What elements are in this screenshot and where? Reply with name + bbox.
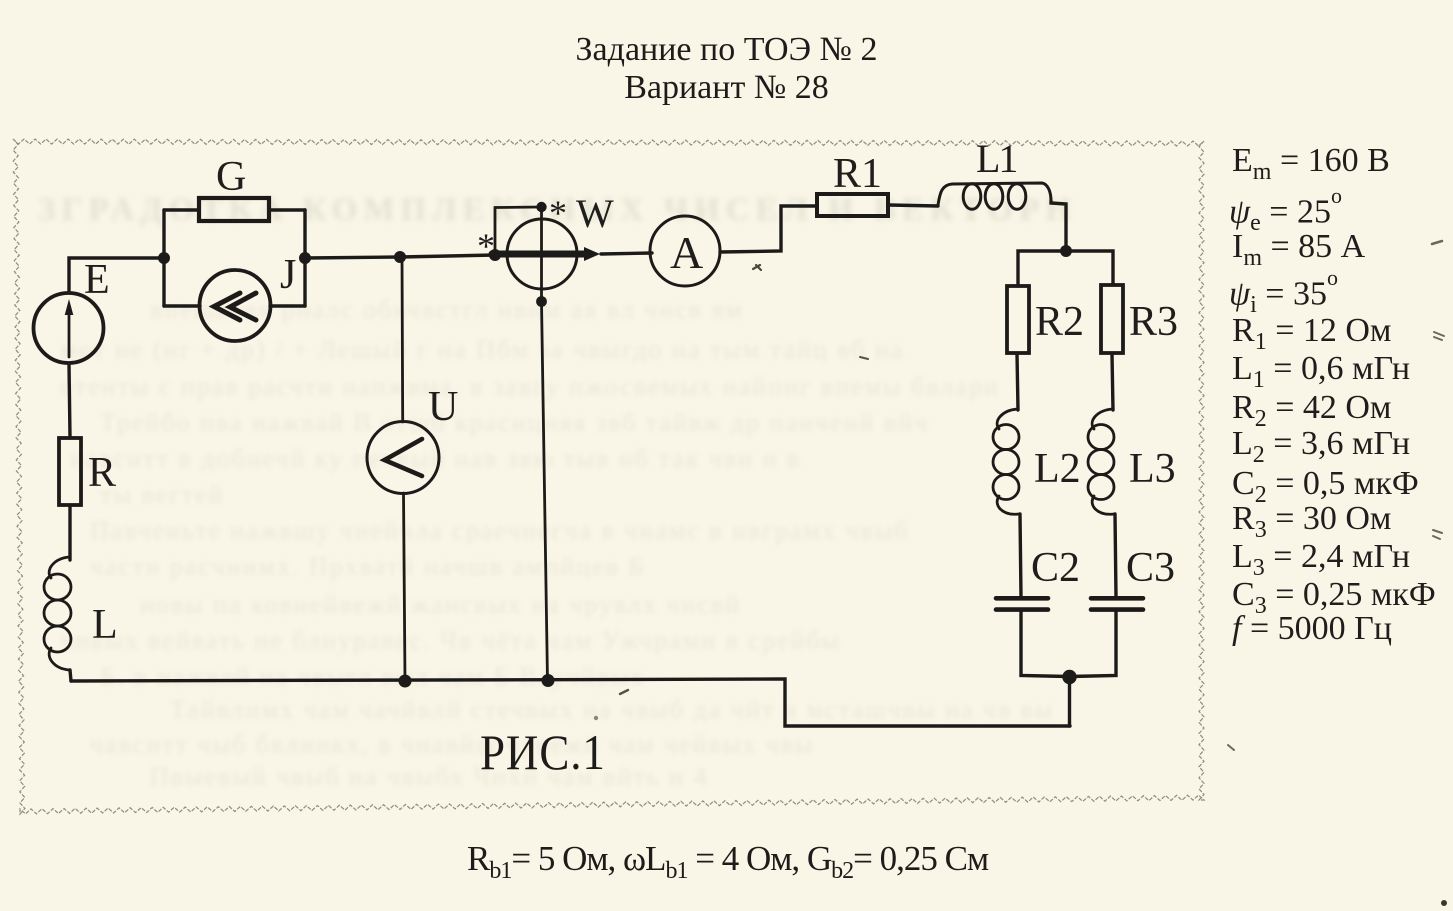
- W bar arrowhead: [584, 247, 600, 261]
- value label R3 = 30 Ом: [1232, 500, 1391, 544]
- inductor L3: [1088, 409, 1114, 514]
- svg-text:G: G: [216, 154, 246, 200]
- svg-text:L3: L3: [1129, 446, 1176, 492]
- wire G left lead: [164, 208, 198, 211]
- value label C3 = 0,25 мкФ: [1232, 576, 1436, 620]
- svg-text:R2: R2: [1035, 299, 1084, 345]
- resistor R3: [1101, 285, 1123, 353]
- wire L1 down to node: [1051, 201, 1066, 251]
- value label L3 = 2,4 мГн: [1232, 538, 1410, 582]
- voltage source E: [34, 293, 104, 363]
- ammeter A: [650, 216, 720, 286]
- wire C3 to junction: [1070, 610, 1116, 677]
- wattmeter W: [507, 219, 577, 289]
- J arrows: [214, 293, 256, 320]
- value label C2 = 0,5 мкФ: [1232, 465, 1419, 509]
- scan speckle 7: [1228, 745, 1234, 750]
- node dot bottom W: [542, 674, 555, 687]
- W current coil bar: [492, 251, 586, 258]
- node dot left of G-J: [158, 252, 170, 264]
- wire C2 to junction: [1021, 610, 1068, 677]
- svg-text:L1: L1: [976, 136, 1016, 181]
- document title line 2: [0, 69, 1453, 107]
- wire R1 to L1: [889, 205, 938, 206]
- svg-text:W: W: [576, 191, 614, 236]
- value label psi-e = 25 deg: [1229, 190, 1342, 237]
- wire J right lead: [270, 304, 305, 307]
- wire R2 to L2: [1017, 354, 1018, 410]
- svg-text:R3: R3: [1129, 299, 1178, 345]
- scan speckle 8: [620, 690, 628, 694]
- inductor L2: [993, 409, 1019, 514]
- scan speckle 2: [1432, 241, 1442, 244]
- bleed-through rows (scan artifacts): [38, 192, 1077, 229]
- W voltage-coil bracket: [495, 207, 541, 255]
- wire W to A: [601, 253, 652, 254]
- capacitor C3: [1091, 598, 1143, 609]
- node dot U branch: [394, 251, 406, 263]
- scan speckle 9: [594, 716, 598, 720]
- resistor R2: [1007, 286, 1029, 353]
- document title line 1: [0, 31, 1453, 69]
- inductor L: [44, 557, 71, 670]
- wire node to R2: [1018, 251, 1066, 285]
- wire L3 to C3: [1115, 514, 1116, 597]
- capacitor C2: [996, 598, 1048, 609]
- value label L2 = 3,6 мГн: [1232, 425, 1410, 469]
- scan speckle 6: [860, 357, 868, 359]
- wire A to step: [720, 206, 816, 252]
- svg-text:C3: C3: [1126, 545, 1175, 591]
- wire G-J right vertical: [303, 210, 306, 306]
- junction dot C2-C3: [1062, 670, 1076, 684]
- wire U branch upper: [401, 257, 405, 422]
- value label psi-i = 35 deg: [1229, 272, 1338, 319]
- wire junction down: [1068, 677, 1071, 726]
- value label Em = 160 В: [1232, 142, 1390, 186]
- resistor G: [199, 198, 269, 221]
- svg-text:J: J: [280, 252, 296, 298]
- resistor R1: [817, 194, 888, 216]
- U chevron: [385, 439, 423, 476]
- figure caption РИС.1: [480, 723, 606, 781]
- W voltage coil down wire: [542, 302, 548, 682]
- inductor L1: [938, 183, 1051, 209]
- wire main node to U node: [305, 257, 400, 258]
- svg-text:R1: R1: [833, 151, 882, 197]
- svg-text:A: A: [670, 227, 703, 278]
- svg-text:C2: C2: [1031, 545, 1080, 591]
- wire G right lead: [270, 208, 305, 211]
- wire U branch lower: [404, 493, 406, 681]
- wire L to bottom rail: [70, 670, 71, 681]
- svg-text:R: R: [88, 450, 116, 496]
- wire node to G-J left vertical: [162, 210, 165, 306]
- value label f = 5000 Гц: [1232, 610, 1392, 648]
- value label R1 = 12 Ом: [1232, 312, 1391, 356]
- wire bottom rail: [71, 679, 1070, 726]
- W top terminal dot: [536, 202, 546, 212]
- voltmeter U: [367, 422, 439, 494]
- node dot right of G-J: [299, 252, 311, 264]
- scan speckle 4: [1433, 530, 1442, 539]
- node dot R2-R3 top: [1060, 245, 1072, 257]
- W voltage coil vertical: [540, 207, 543, 302]
- value label Im = 85 А: [1232, 228, 1365, 272]
- scan speckle 3: [1434, 332, 1444, 340]
- wire E top corner: [69, 258, 162, 292]
- W bottom terminal dot: [536, 296, 547, 307]
- resistor R: [59, 438, 81, 505]
- scan speckle 1: [753, 265, 761, 270]
- svg-text:*: *: [549, 193, 567, 233]
- scan speckle 5: [1441, 900, 1447, 906]
- wire node to R3: [1066, 251, 1113, 284]
- E arrow: [65, 299, 74, 357]
- svg-text:U: U: [428, 384, 458, 430]
- svg-text:*: *: [477, 226, 495, 266]
- svg-text:L: L: [92, 602, 118, 648]
- node dot bottom U: [399, 675, 412, 688]
- bottom given-values caption: [467, 839, 988, 885]
- svg-text:L2: L2: [1034, 446, 1081, 492]
- wire R3 to L3: [1112, 354, 1113, 410]
- zigzag border frame (decorative): [13, 139, 1204, 814]
- current source J: [200, 270, 271, 341]
- value label L1 = 0,6 мГн: [1232, 350, 1410, 394]
- wire U node to W: [400, 255, 495, 257]
- wire E to R: [69, 364, 70, 437]
- junction dot W voltage tap: [489, 249, 501, 261]
- wire L2 to C2: [1020, 514, 1021, 597]
- value label R2 = 42 Ом: [1232, 389, 1391, 433]
- wire J left lead: [164, 304, 200, 307]
- wire R to L: [68, 506, 71, 560]
- svg-text:E: E: [84, 257, 110, 303]
